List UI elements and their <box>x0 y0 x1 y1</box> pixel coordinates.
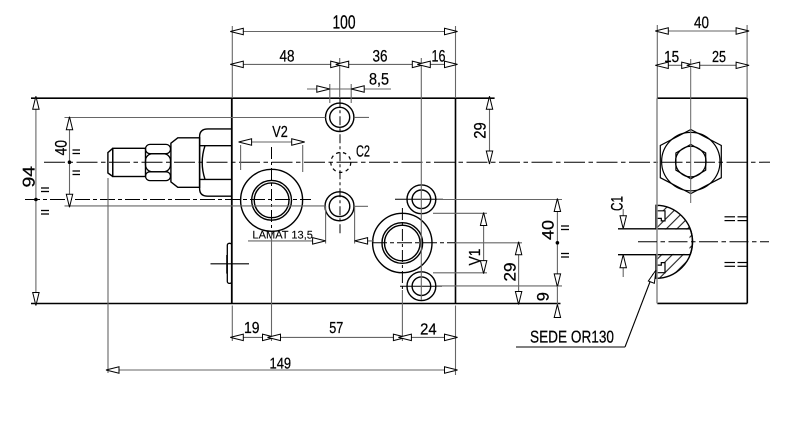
centerline vertical V1 <box>401 208 403 290</box>
valve stem <box>113 148 146 176</box>
svg-text:29: 29 <box>472 122 490 139</box>
side view block left edge <box>656 98 658 303</box>
svg-text:C1: C1 <box>609 196 627 211</box>
centerline V1 horizontal <box>372 242 455 244</box>
dim 149 <box>108 178 456 373</box>
svg-text:V1: V1 <box>467 248 484 265</box>
dim V1 <box>433 213 487 272</box>
cavity semicircle hatched <box>656 205 692 278</box>
dim 40 right <box>437 200 563 286</box>
svg-text:LAMAT 13,5: LAMAT 13,5 <box>252 230 313 242</box>
port P3 <box>407 185 436 214</box>
centerline horizontal upper y162 <box>44 161 770 163</box>
svg-text:36: 36 <box>373 47 388 65</box>
dim 40 top side view <box>657 25 747 98</box>
centerline horizontal lower y199.5 <box>25 199 311 201</box>
centermark P4 <box>400 285 442 287</box>
port P1 (8.5 hole) <box>326 103 354 131</box>
valve body <box>171 138 200 188</box>
centerline vertical V2 <box>271 147 273 232</box>
hex plug centerline vertical <box>690 59 692 203</box>
valve locknut <box>146 144 171 180</box>
svg-text:149: 149 <box>270 355 292 372</box>
C1 bore lines <box>618 229 690 255</box>
svg-text:9: 9 <box>535 292 553 301</box>
dim 19 57 24 <box>232 232 455 375</box>
port C2 hidden circle <box>331 152 351 172</box>
dim LAMAT 13,5 <box>248 206 374 244</box>
svg-text:40: 40 <box>540 220 558 240</box>
svg-text:48: 48 <box>280 47 295 65</box>
dim V2 <box>241 142 303 172</box>
svg-text:16: 16 <box>432 47 446 65</box>
svg-text:40: 40 <box>53 140 71 156</box>
dim 40 left <box>65 118 326 207</box>
svg-text:15: 15 <box>664 49 679 66</box>
centerline vertical x339.7 <box>339 98 341 235</box>
side view block outline <box>657 98 747 303</box>
svg-text:29: 29 <box>502 263 520 282</box>
svg-text:SEDE OR130: SEDE OR130 <box>530 327 614 346</box>
dim 29 right <box>455 243 522 304</box>
centermark P3 <box>395 198 443 200</box>
O-ring groove upper <box>657 211 666 221</box>
svg-text:19: 19 <box>244 320 260 337</box>
C1 bore white band <box>618 230 690 254</box>
port V2 <box>241 169 303 231</box>
dim 94 left <box>35 98 37 303</box>
port P2 (LAMAT 13.5) <box>325 192 354 221</box>
tab centermark cross <box>211 255 250 274</box>
dim 9 right <box>556 286 558 304</box>
dim 29 top right <box>489 98 491 162</box>
dim 100 <box>232 26 455 98</box>
svg-text:25: 25 <box>712 49 726 66</box>
svg-text:24: 24 <box>420 322 437 339</box>
svg-text:8,5: 8,5 <box>369 71 389 89</box>
dim 15 25 side view <box>657 64 747 66</box>
port P4 <box>407 272 436 301</box>
cavity centerline <box>638 241 769 243</box>
block front view outline <box>31 98 561 303</box>
valve cartridge tip <box>108 148 113 176</box>
equals marks side view <box>725 217 749 266</box>
dim C1 <box>622 209 624 277</box>
label SEDE OR130 with leader <box>516 346 625 348</box>
svg-text:57: 57 <box>329 320 343 337</box>
centermark P2 right dash <box>355 205 368 207</box>
dim 48 36 16 <box>232 58 455 300</box>
dim 8,5 <box>307 84 391 103</box>
svg-text:V2: V2 <box>272 124 288 141</box>
centermark P1 right dash <box>355 116 369 118</box>
svg-text:40: 40 <box>694 14 709 32</box>
port V1 <box>373 213 432 272</box>
O-ring groove lower <box>657 263 666 273</box>
valve hex head <box>200 129 232 196</box>
svg-text:94: 94 <box>20 166 39 188</box>
side tab on block left edge <box>227 243 232 283</box>
hex plug side view <box>660 130 721 194</box>
svg-text:100: 100 <box>333 13 356 34</box>
svg-text:C2: C2 <box>356 144 370 161</box>
